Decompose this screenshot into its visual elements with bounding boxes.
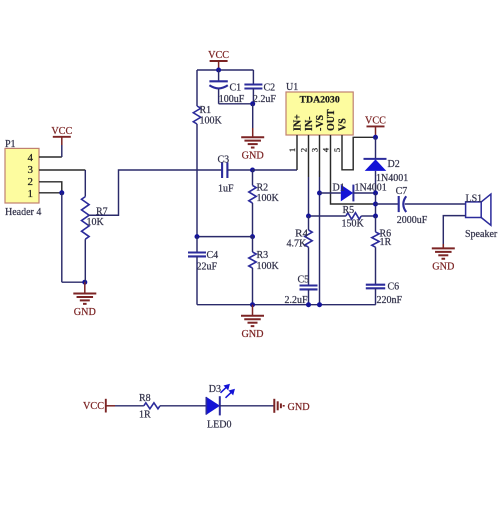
svg-text:GND: GND xyxy=(241,329,263,340)
pin 2 wire xyxy=(39,182,62,193)
wire pin3 to R7 xyxy=(84,170,86,197)
svg-text:2000uF: 2000uF xyxy=(397,215,428,226)
svg-text:GND: GND xyxy=(288,402,310,413)
pin 2 lead xyxy=(308,135,310,177)
svg-text:VCC: VCC xyxy=(83,401,104,412)
wire C1-C2 bottom xyxy=(219,103,253,105)
wire speaker to ground xyxy=(443,216,465,249)
resistor R6 1R xyxy=(375,216,377,232)
svg-text:R3: R3 xyxy=(257,250,269,261)
svg-text:C4: C4 xyxy=(207,250,219,261)
svg-text:LS1: LS1 xyxy=(466,193,483,204)
svg-text:2.2uF: 2.2uF xyxy=(253,94,277,105)
wire top rail xyxy=(197,69,253,71)
pin 4 wire xyxy=(39,156,62,158)
node R2-R3 junction xyxy=(250,234,255,239)
capacitor C5 2.2uF xyxy=(300,284,318,286)
svg-text:1R: 1R xyxy=(139,410,151,421)
capacitor C1 xyxy=(218,70,220,81)
node D1 anode junction xyxy=(317,191,322,196)
svg-text:22uF: 22uF xyxy=(197,262,218,273)
svg-text:2: 2 xyxy=(299,148,309,152)
resistor R2 xyxy=(252,170,254,185)
svg-text:C7: C7 xyxy=(396,186,408,197)
diode D1 1N4001 xyxy=(320,192,341,194)
wire pin2 down xyxy=(308,177,310,216)
svg-text:-VS: -VS xyxy=(315,114,326,131)
wire R8 to LED xyxy=(160,405,206,407)
wire LED to ground xyxy=(220,405,274,407)
node R1-C4 junction xyxy=(195,234,200,239)
pin 5 lead xyxy=(342,135,376,170)
ground GND (center) xyxy=(252,305,254,316)
svg-text:GND: GND xyxy=(74,307,96,318)
power VCC at U1 xyxy=(367,125,385,127)
resistor R4 4.7K xyxy=(308,216,310,230)
pin 3 wire xyxy=(39,169,85,171)
svg-text:D1: D1 xyxy=(333,183,345,194)
svg-text:VCC: VCC xyxy=(365,116,386,127)
node input junction xyxy=(250,168,255,173)
node VS junction xyxy=(373,135,378,140)
svg-text:Header 4: Header 4 xyxy=(5,207,41,218)
node out-pin4 junction xyxy=(373,202,378,207)
svg-text:C2: C2 xyxy=(264,83,276,94)
wire bias link xyxy=(197,236,253,238)
pin 1 wire xyxy=(39,192,62,194)
svg-text:OUT: OUT xyxy=(326,109,337,131)
ground GND (header) xyxy=(84,282,86,293)
wire R1 upper xyxy=(196,70,198,106)
svg-text:U1: U1 xyxy=(286,82,298,93)
node pin3 rail junction xyxy=(317,302,322,307)
svg-text:VCC: VCC xyxy=(208,50,229,61)
wire C7 to speaker xyxy=(405,203,466,205)
svg-text:C5: C5 xyxy=(298,275,310,286)
node pin1-pin2 junction xyxy=(59,190,64,195)
node R5 right junction xyxy=(373,214,378,219)
svg-text:Speaker: Speaker xyxy=(465,229,498,240)
svg-text:4.7K: 4.7K xyxy=(287,239,308,250)
svg-text:C1: C1 xyxy=(230,83,242,94)
wire R7 tap to input xyxy=(89,170,222,215)
capacitor C7 2000uF xyxy=(376,203,399,205)
svg-text:TDA2030: TDA2030 xyxy=(299,94,339,105)
ground GND (LED row) xyxy=(273,399,275,413)
svg-text:P1: P1 xyxy=(5,139,16,150)
power VCC at header xyxy=(53,136,71,138)
wire pin3 down to rail xyxy=(319,177,321,305)
resistor R7 (tapped) xyxy=(82,197,90,240)
svg-text:4: 4 xyxy=(28,152,34,164)
wire bottom rail xyxy=(197,304,376,306)
svg-text:C3: C3 xyxy=(218,155,230,166)
svg-text:GND: GND xyxy=(242,151,264,162)
pin 3 lead xyxy=(319,135,321,177)
pin 4 lead xyxy=(331,135,376,204)
svg-text:3: 3 xyxy=(310,148,320,152)
resistor R3 xyxy=(252,237,254,252)
pin 1 lead xyxy=(296,135,298,170)
svg-text:2: 2 xyxy=(28,176,34,188)
svg-text:150K: 150K xyxy=(342,219,365,230)
LED D3 LED0 xyxy=(206,397,220,415)
svg-text:5: 5 xyxy=(332,148,342,152)
svg-text:C6: C6 xyxy=(388,282,400,293)
svg-text:R1: R1 xyxy=(200,105,212,116)
capacitor C3 xyxy=(221,162,223,178)
node R7 bottom junction xyxy=(82,280,87,285)
node R5 left junction xyxy=(306,214,311,219)
svg-text:LED0: LED0 xyxy=(207,420,231,431)
svg-text:3: 3 xyxy=(28,164,34,176)
resistor R5 150K xyxy=(309,215,346,217)
svg-text:2.2uF: 2.2uF xyxy=(285,295,309,306)
node rail-GND junction xyxy=(250,302,255,307)
svg-text:D3: D3 xyxy=(209,384,221,395)
wire to GND top xyxy=(252,104,254,128)
svg-text:VS: VS xyxy=(338,118,349,131)
svg-text:220nF: 220nF xyxy=(377,295,403,306)
capacitor C4 xyxy=(196,237,198,253)
wire R1 lower xyxy=(196,124,198,237)
svg-text:1uF: 1uF xyxy=(218,184,234,195)
svg-text:10K: 10K xyxy=(87,217,105,228)
svg-text:1R: 1R xyxy=(380,237,392,248)
wire C3 to node xyxy=(227,169,252,171)
ground GND (filter caps) xyxy=(241,136,264,138)
node junction top rail xyxy=(216,68,221,73)
svg-text:IN+: IN+ xyxy=(293,114,304,131)
svg-text:VCC: VCC xyxy=(51,126,72,137)
svg-text:1: 1 xyxy=(287,148,297,152)
wire out node vertical xyxy=(375,193,377,216)
svg-text:IN-: IN- xyxy=(304,117,315,131)
node C5 rail junction xyxy=(306,302,311,307)
capacitor C2 xyxy=(252,70,254,85)
power VCC net at C1/C2 xyxy=(210,60,228,62)
wire header ground run xyxy=(61,193,63,282)
connector P1 Header 4 xyxy=(5,148,39,203)
op-amp U1 TDA2030 body xyxy=(286,92,353,135)
node C2 bottom junction xyxy=(250,101,255,106)
diode D2 1N4001 xyxy=(375,137,377,159)
svg-text:100K: 100K xyxy=(200,116,223,127)
ground GND (speaker) xyxy=(442,244,444,248)
svg-text:R2: R2 xyxy=(257,183,269,194)
wire R7 bottom xyxy=(84,239,86,282)
svg-text:GND: GND xyxy=(432,262,454,273)
svg-text:R8: R8 xyxy=(139,393,151,404)
wire input to U1 pin1 xyxy=(253,169,298,171)
svg-text:R5: R5 xyxy=(343,205,355,216)
resistor R1 xyxy=(193,106,200,124)
wire VCC to R8 xyxy=(115,405,144,407)
svg-text:D2: D2 xyxy=(388,159,400,170)
node D1-out junction xyxy=(373,191,378,196)
svg-text:100K: 100K xyxy=(257,261,280,272)
svg-text:100K: 100K xyxy=(257,193,280,204)
capacitor C6 220nF xyxy=(366,284,385,286)
speaker LS1 xyxy=(466,202,482,218)
svg-text:1N4001: 1N4001 xyxy=(355,183,387,194)
svg-text:1: 1 xyxy=(28,188,34,200)
resistor R8 1R xyxy=(144,403,160,409)
